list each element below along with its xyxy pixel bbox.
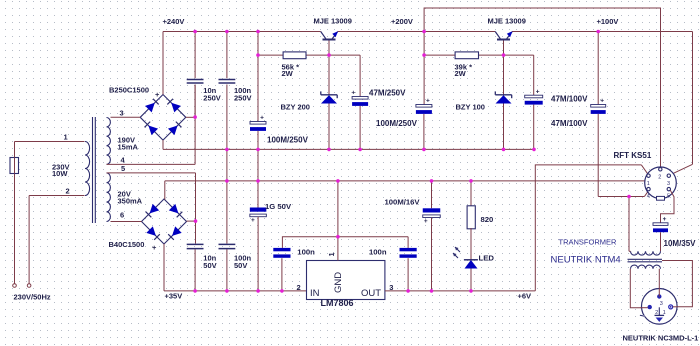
svg-text:5: 5 [667,194,670,200]
svg-text:BZY 100: BZY 100 [456,102,485,111]
svg-text:B250C1500: B250C1500 [109,86,149,95]
svg-text:1: 1 [647,181,650,187]
svg-text:NEUTRIK NC3MD-L-1: NEUTRIK NC3MD-L-1 [623,334,699,343]
svg-text:6: 6 [120,211,124,220]
svg-text:100M/16V: 100M/16V [385,198,421,207]
svg-text:+: + [424,218,428,225]
svg-text:BZY 200: BZY 200 [281,102,310,111]
svg-text:+: + [152,243,157,252]
svg-text:5: 5 [121,164,125,173]
svg-text:+: + [155,90,160,99]
svg-text:47M/100V: 47M/100V [551,119,588,128]
svg-text:2: 2 [658,174,661,180]
svg-text:47M/250V: 47M/250V [369,88,406,97]
svg-text:3: 3 [660,301,663,307]
svg-text:1G 50V: 1G 50V [265,202,292,211]
svg-text:100n: 100n [369,247,387,256]
svg-text:4: 4 [647,194,650,200]
svg-text:NEUTRIK NTM4: NEUTRIK NTM4 [551,255,621,266]
svg-text:350mA: 350mA [118,197,143,206]
svg-text:GND: GND [333,272,344,293]
svg-text:MJE 13009: MJE 13009 [488,17,526,26]
svg-text:+35V: +35V [165,292,183,301]
svg-text:+: + [663,216,667,223]
svg-text:250V: 250V [234,94,252,103]
svg-text:50V: 50V [203,261,216,270]
svg-text:2: 2 [66,187,70,196]
svg-text:3: 3 [120,109,124,118]
svg-text:230V/50Hz: 230V/50Hz [14,293,51,302]
svg-text:LED: LED [479,254,495,263]
svg-text:1: 1 [64,133,68,142]
svg-text:50V: 50V [234,261,247,270]
svg-text:+100V: +100V [597,17,619,26]
svg-text:2W: 2W [455,69,467,78]
svg-text:10W: 10W [52,169,68,178]
svg-text:+240V: +240V [163,17,185,26]
svg-text:+: + [260,115,264,122]
svg-text:820: 820 [481,215,494,224]
svg-text:+: + [600,98,604,105]
svg-text:+: + [251,217,255,224]
svg-text:100n: 100n [297,247,315,256]
svg-text:2W: 2W [282,69,294,78]
svg-text:B40C1500: B40C1500 [109,240,145,249]
svg-text:100M/250V: 100M/250V [267,135,309,144]
svg-text:250V: 250V [203,94,221,103]
svg-text:47M/100V: 47M/100V [551,95,588,104]
svg-text:LM7806: LM7806 [321,298,354,308]
svg-text:IN: IN [310,288,320,299]
svg-text:+: + [351,90,355,97]
svg-text:+200V: +200V [391,17,413,26]
svg-text:MJE 13009: MJE 13009 [314,17,352,26]
svg-text:TRANSFORMER: TRANSFORMER [559,238,618,247]
svg-text:10M/35V: 10M/35V [664,239,697,248]
svg-text:15mA: 15mA [118,143,139,152]
svg-text:RFT KS51: RFT KS51 [614,151,652,160]
svg-text:1: 1 [327,252,336,256]
svg-text:+: + [426,98,430,105]
svg-text:+6V: +6V [518,292,532,301]
svg-text:3: 3 [667,181,670,187]
svg-text:100M/250V: 100M/250V [376,119,418,128]
svg-text:OUT: OUT [361,288,381,299]
svg-text:2: 2 [297,283,301,292]
svg-text:+: + [536,88,540,95]
